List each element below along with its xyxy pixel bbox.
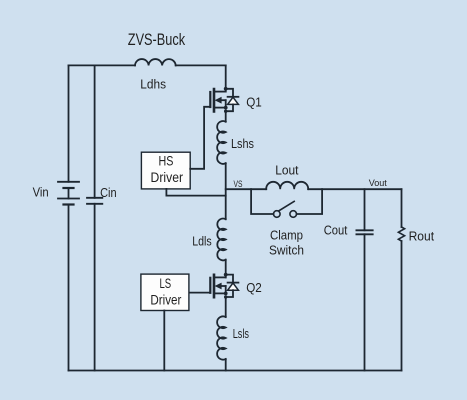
svg-text:Cin: Cin	[100, 186, 117, 200]
resistor Rout	[398, 227, 404, 241]
wire Cin bottom	[94, 204, 96, 371]
svg-text:Ldls: Ldls	[192, 234, 212, 248]
wire HS Driver to Q1 gate	[190, 107, 209, 169]
inductor Ldls	[217, 219, 225, 261]
wire Lsls to ground	[225, 359, 227, 371]
svg-text:Driver: Driver	[151, 170, 184, 185]
wire Rout bottom	[401, 241, 403, 371]
wire clamp left branch	[251, 189, 273, 214]
wire top rail right	[176, 64, 226, 66]
wire Vin bottom	[68, 205, 70, 371]
svg-text:Vout: Vout	[369, 178, 387, 189]
inductor Lout	[266, 182, 308, 189]
wire LS Driver to Q2 gate	[190, 292, 210, 294]
svg-text:Lsls: Lsls	[233, 327, 249, 341]
switch clamp	[274, 201, 297, 217]
wire Cout top	[364, 189, 366, 230]
svg-text:Driver: Driver	[150, 293, 181, 308]
svg-text:Lshs: Lshs	[231, 137, 254, 151]
transistor Q2	[210, 273, 238, 299]
svg-text:Switch: Switch	[269, 244, 304, 258]
rect LS Driver box	[141, 274, 189, 310]
svg-text:Q2: Q2	[246, 281, 262, 295]
svg-text:LS: LS	[159, 276, 171, 291]
capacitor Cout	[356, 230, 372, 234]
svg-text:Lout: Lout	[275, 164, 299, 178]
capacitor Cin	[87, 198, 102, 204]
svg-text:Clamp: Clamp	[270, 229, 303, 243]
wire ground rail	[69, 370, 402, 372]
svg-text:Vin: Vin	[33, 185, 49, 199]
inductor Lshs	[217, 121, 226, 164]
inductor Lsls	[217, 316, 226, 359]
wire Q2 source	[225, 297, 227, 317]
wire Cin top	[94, 65, 96, 197]
svg-text:Rout: Rout	[409, 230, 435, 244]
transistor Q1	[210, 87, 238, 113]
svg-text:Q1: Q1	[246, 95, 262, 109]
wire Q1 drain	[225, 65, 227, 88]
wire Q1 source	[225, 111, 227, 122]
wire VS rail left	[226, 188, 267, 190]
svg-text:ZVS-Buck: ZVS-Buck	[128, 31, 186, 49]
wire top rail left	[69, 64, 136, 66]
wire trunk Ldls to Q2	[225, 260, 227, 275]
battery Vin	[58, 182, 79, 205]
rect HS Driver box	[141, 152, 190, 189]
wire Cout bottom	[364, 234, 366, 370]
svg-text:Ldhs: Ldhs	[140, 77, 166, 91]
wire HS Driver to VS node	[166, 189, 225, 196]
svg-text:HS: HS	[159, 153, 174, 168]
wire VS rail right	[308, 188, 401, 190]
svg-text:Cout: Cout	[324, 224, 348, 238]
wire clamp right branch	[297, 189, 323, 214]
inductor Ldhs	[135, 59, 176, 65]
wire trunk VS node	[225, 163, 227, 219]
wire LS Driver to ground	[163, 311, 165, 371]
wire Vin top	[68, 65, 70, 181]
wire Rout top	[401, 189, 403, 227]
